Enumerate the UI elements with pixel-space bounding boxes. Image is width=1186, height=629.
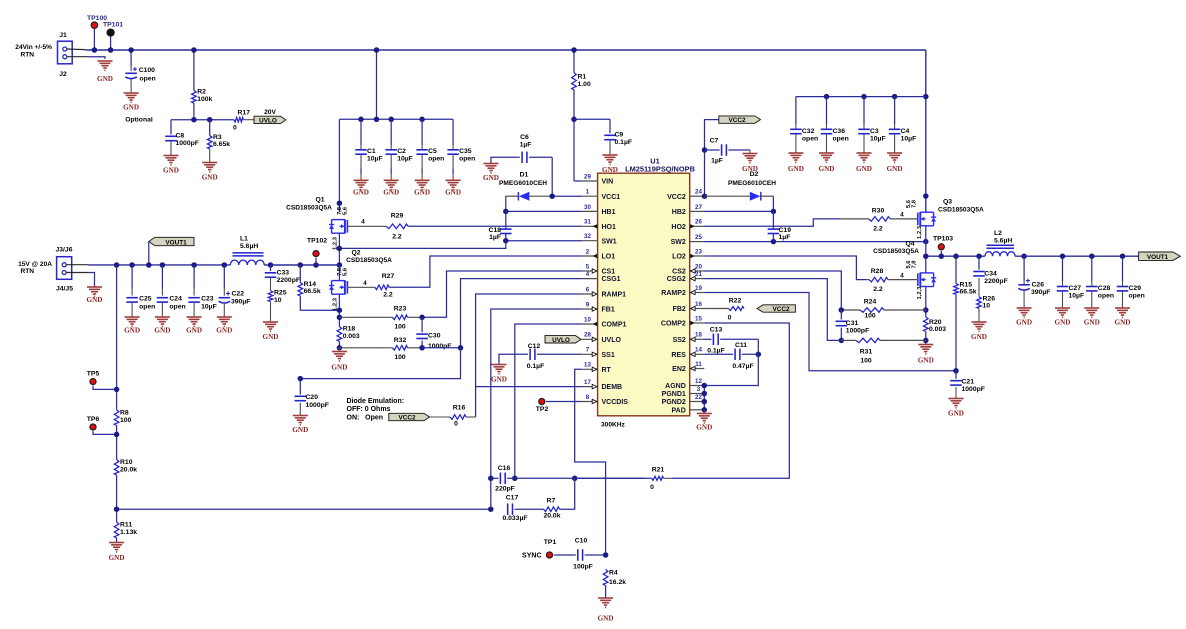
ground R18 [338, 348, 340, 352]
svg-text:390µF: 390µF [1031, 289, 1050, 296]
svg-text:OFF: 0 Ohms: OFF: 0 Ohms [347, 406, 391, 413]
svg-text:100pF: 100pF [573, 563, 593, 570]
wire HB2 row [704, 210, 773, 212]
svg-text:C35: C35 [459, 148, 472, 155]
wire SW1 row [506, 240, 582, 242]
pin RAMP2 (19) [690, 292, 705, 294]
net label UVLO at pin 28 [545, 336, 581, 343]
wire RT to R4 node [575, 369, 606, 555]
wire VIN pin [574, 180, 582, 182]
svg-text:VCC2: VCC2 [667, 194, 686, 201]
capacitor C19 1µF [772, 211, 774, 229]
resistor R17 0 [234, 117, 244, 122]
resistor R4 16.2k [603, 570, 608, 586]
svg-text:1.00: 1.00 [578, 81, 591, 88]
svg-text:C30: C30 [428, 333, 441, 340]
svg-text:0.47µF: 0.47µF [732, 363, 753, 370]
capacitor C34 2200pF [978, 256, 980, 270]
svg-text:GND: GND [331, 364, 347, 372]
svg-text:4: 4 [900, 212, 904, 219]
svg-text:RTN: RTN [20, 268, 34, 275]
svg-text:PAD: PAD [672, 407, 686, 414]
ground R26 [972, 321, 987, 323]
capacitor C16 220pF [491, 477, 499, 479]
wire J4 to ground [66, 272, 88, 274]
svg-text:UVLO: UVLO [602, 337, 622, 344]
wire LO1 to R27 [389, 256, 581, 287]
svg-text:2200pF: 2200pF [277, 277, 300, 284]
svg-text:6.65k: 6.65k [213, 141, 230, 148]
svg-text:5.6µH: 5.6µH [240, 243, 258, 250]
svg-text:14: 14 [695, 347, 702, 354]
wire feedback column [116, 265, 118, 410]
resistor R26 10 [977, 297, 982, 309]
wire CSG1 branch to C20 [300, 348, 460, 379]
svg-text:0.1µF: 0.1µF [707, 348, 725, 355]
wire LO2 to R28 [704, 256, 866, 280]
ground C29 [1115, 307, 1130, 309]
svg-text:VIN: VIN [602, 179, 614, 186]
svg-text:HO1: HO1 [602, 224, 617, 231]
svg-text:SS2: SS2 [673, 337, 686, 344]
svg-text:GND: GND [598, 615, 614, 623]
pin SS2 (18) [690, 338, 705, 340]
svg-text:10µF: 10µF [201, 304, 217, 311]
svg-text:DEMB: DEMB [602, 384, 623, 391]
svg-text:SS1: SS1 [602, 352, 615, 359]
svg-text:0.1µF: 0.1µF [527, 363, 545, 370]
wire SW2 row [704, 241, 926, 243]
svg-text:20V: 20V [264, 109, 276, 116]
svg-text:TP1: TP1 [544, 539, 557, 546]
svg-text:22: 22 [695, 394, 702, 401]
svg-text:C6: C6 [520, 134, 529, 141]
wire CSG1 [422, 279, 581, 348]
ground C7 [749, 150, 751, 154]
pin RT (13) [582, 368, 598, 370]
svg-text:R28: R28 [871, 268, 884, 275]
pin RES (14) [690, 353, 705, 355]
svg-text:R29: R29 [391, 213, 404, 220]
pin COMP2 (15) [690, 322, 705, 324]
svg-text:R3: R3 [213, 134, 222, 141]
svg-text:R18: R18 [343, 326, 356, 333]
wire CS2 [704, 271, 841, 310]
svg-text:0: 0 [728, 315, 732, 322]
svg-text:GND: GND [1115, 319, 1131, 327]
wire R11 node to C17 [117, 508, 491, 510]
svg-text:0.033µF: 0.033µF [502, 515, 527, 522]
svg-text:24Vin +/-5%: 24Vin +/-5% [15, 44, 52, 51]
svg-text:CSD18503Q5A: CSD18503Q5A [346, 257, 392, 264]
svg-text:1000pF: 1000pF [428, 343, 451, 350]
svg-text:2.2: 2.2 [392, 234, 402, 241]
svg-text:Optional: Optional [125, 117, 153, 124]
svg-text:R14: R14 [304, 281, 317, 288]
svg-text:20.0k: 20.0k [543, 512, 560, 519]
svg-text:GND: GND [1055, 319, 1071, 327]
svg-text:open: open [140, 76, 156, 83]
svg-text:4: 4 [900, 272, 904, 279]
svg-text:GND: GND [971, 333, 987, 341]
resistor R14 66.5k [299, 265, 301, 282]
svg-text:R20: R20 [929, 319, 942, 326]
ground R20 [918, 344, 933, 346]
resistor R25 10 [268, 291, 273, 302]
svg-text:19: 19 [695, 285, 702, 292]
ground C23 [187, 316, 202, 318]
svg-text:open: open [1129, 292, 1145, 299]
svg-text:C36: C36 [833, 128, 846, 135]
svg-text:Q2: Q2 [351, 249, 360, 256]
svg-text:4: 4 [363, 280, 367, 287]
capacitor C4 10µF [894, 97, 896, 124]
svg-text:Q3: Q3 [943, 199, 952, 206]
test point TP103 [938, 244, 944, 250]
svg-text:10: 10 [274, 297, 282, 304]
svg-text:C21: C21 [962, 379, 975, 386]
ground C24 [155, 316, 170, 318]
capacitor C35 open [452, 119, 454, 145]
wire VIN to cap bank [376, 50, 378, 119]
connector J1/J2 [58, 41, 73, 64]
wire 24Vin rail [85, 49, 926, 51]
wire RAMP2 to C21 [704, 293, 956, 371]
capacitor C29 open [1122, 256, 1124, 281]
svg-text:TP6: TP6 [87, 416, 100, 423]
capacitor C11 0.47µF [704, 353, 733, 355]
svg-text:16: 16 [695, 301, 702, 308]
svg-text:GND: GND [353, 189, 369, 197]
ground C36 [819, 152, 834, 154]
pin VCC1 (1) [582, 195, 598, 197]
capacitor C36 open [826, 97, 828, 124]
wire VCC1 pin [552, 195, 581, 197]
svg-text:0.1µF: 0.1µF [615, 139, 633, 146]
svg-text:26: 26 [695, 219, 702, 226]
capacitor C26 390µF [1023, 256, 1025, 280]
ground C32 [788, 152, 803, 154]
svg-text:GND: GND [163, 167, 179, 175]
svg-text:C32: C32 [802, 128, 815, 135]
pin HO2 (26) [690, 225, 705, 227]
svg-text:R2: R2 [197, 89, 206, 96]
svg-text:C23: C23 [201, 296, 214, 303]
wire VOUT1 rail right [1015, 255, 1173, 257]
svg-text:PMEG6010CEH: PMEG6010CEH [728, 180, 776, 187]
svg-text:CSD18503Q5A: CSD18503Q5A [938, 206, 984, 213]
svg-text:J4/J5: J4/J5 [56, 286, 73, 293]
capacitor C28 open [1091, 256, 1093, 281]
capacitor C5 open [421, 119, 423, 145]
svg-text:CS2: CS2 [672, 269, 686, 276]
svg-text:1µF: 1µF [711, 158, 723, 165]
capacitor C24 open [161, 265, 163, 289]
ground C5 [421, 174, 423, 180]
resistor R27 2.2 [347, 286, 374, 288]
pin VCCDIS (8) [582, 401, 598, 403]
svg-text:300KHz: 300KHz [601, 422, 626, 429]
ground C100 [124, 92, 139, 94]
pin CSG1 (4) [582, 278, 598, 280]
capacitor C8 1000pF [170, 120, 172, 135]
capacitor C10 100pF [554, 554, 576, 556]
pin LO2 (23) [690, 255, 705, 257]
resistor R1 1.00 [573, 50, 575, 73]
svg-text:open: open [833, 136, 849, 143]
capacitor C23 10µF [193, 265, 195, 289]
pin HB2 (27) [690, 210, 705, 212]
svg-text:GND: GND [856, 165, 872, 173]
svg-text:TP5: TP5 [87, 370, 100, 377]
resistor R2 100k [193, 50, 195, 91]
svg-text:12: 12 [695, 378, 702, 385]
pin VIN (29) [582, 180, 598, 182]
resistor R8 100 [114, 410, 119, 426]
svg-text:D1: D1 [520, 172, 529, 179]
pin HB1 (30) [582, 210, 598, 212]
svg-text:66.5k: 66.5k [304, 288, 321, 295]
svg-text:31: 31 [584, 219, 591, 226]
svg-text:100: 100 [860, 358, 872, 365]
svg-text:1µF: 1µF [489, 234, 501, 241]
capacitor C6 1µF [491, 157, 520, 163]
svg-text:C31: C31 [846, 320, 859, 327]
svg-text:C7: C7 [710, 138, 719, 145]
svg-text:HB1: HB1 [602, 209, 616, 216]
capacitor C17 0.033µF [507, 503, 509, 515]
svg-text:C8: C8 [176, 133, 185, 140]
ground R25 [263, 321, 278, 323]
svg-text:CSG2: CSG2 [667, 276, 686, 283]
svg-text:SW1: SW1 [602, 238, 617, 245]
svg-text:32: 32 [584, 233, 591, 240]
wire Q4 source chain [925, 287, 927, 317]
svg-text:COMP1: COMP1 [602, 322, 627, 329]
svg-text:FB1: FB1 [602, 307, 615, 314]
op-amp U1 LM25119PSQ/NOPB controller body [598, 173, 690, 416]
resistor R10 20.0k [114, 460, 119, 476]
wire AGND PGND PAD column [703, 386, 705, 411]
svg-text:R11: R11 [120, 522, 132, 529]
pin COMP1 (10) [582, 323, 598, 325]
ground C3 [857, 152, 872, 154]
pin VCC2 (24) [690, 195, 705, 197]
svg-text:SYNC: SYNC [522, 553, 541, 560]
wire CS1 [422, 271, 581, 317]
svg-text:C18: C18 [489, 227, 502, 234]
ground C22 [217, 316, 232, 318]
ground C9 [603, 154, 618, 156]
wire Q3 source to rail [925, 226, 927, 256]
svg-text:C1: C1 [367, 148, 376, 155]
svg-text:7,8: 7,8 [912, 260, 918, 269]
svg-text:100: 100 [864, 313, 876, 320]
svg-text:4: 4 [586, 271, 590, 278]
resistor R16 0 [450, 415, 466, 420]
test point TP2 [539, 398, 545, 404]
pin FB2 (16) [690, 308, 705, 310]
capacitor C3 10µF [863, 97, 865, 124]
svg-text:L1: L1 [240, 236, 248, 243]
svg-text:C16: C16 [498, 465, 511, 472]
svg-text:HO2: HO2 [671, 224, 686, 231]
resistor R3 6.65k [209, 120, 211, 136]
ground R11 [109, 542, 124, 544]
pin RAMP1 (6) [582, 293, 598, 295]
wire cap bank to Q1 drain [338, 119, 340, 212]
capacitor C100 open [130, 50, 132, 66]
svg-text:R31: R31 [860, 349, 873, 356]
svg-text:GND: GND [263, 333, 279, 341]
wire Q2 source chain [338, 295, 340, 327]
svg-text:7: 7 [586, 347, 590, 354]
capacitor C9 0.1µF [574, 118, 610, 120]
svg-text:1,2,3: 1,2,3 [917, 286, 923, 300]
svg-text:1000pF: 1000pF [306, 402, 329, 409]
svg-text:J3/J6: J3/J6 [55, 247, 72, 254]
svg-text:C12: C12 [528, 343, 541, 350]
pin FB1 (9) [582, 308, 598, 310]
resistor R24 100 [841, 309, 860, 311]
wire C16 to R21 [515, 477, 644, 479]
svg-text:J2: J2 [59, 71, 67, 78]
svg-text:GND: GND [87, 296, 103, 304]
svg-text:GND: GND [124, 327, 140, 335]
capacitor C33 2200pF [270, 265, 272, 271]
resistor R30 2.2 [869, 217, 891, 222]
svg-text:R16: R16 [453, 405, 466, 412]
svg-text:GND: GND [918, 357, 934, 365]
svg-text:R25: R25 [274, 290, 287, 297]
svg-text:C4: C4 [901, 128, 910, 135]
pin PGND1 (3) [690, 393, 705, 395]
svg-text:GND: GND [109, 554, 125, 562]
svg-text:CSD18503Q5A: CSD18503Q5A [286, 204, 332, 211]
capacitor C12 0.1µF [537, 353, 582, 355]
svg-text:open: open [169, 304, 185, 311]
pin AGND (12) [690, 385, 705, 387]
svg-text:VCC2: VCC2 [398, 415, 415, 422]
svg-text:ON: Open: ON: Open [347, 415, 384, 422]
resistor R20 0.003 [924, 317, 929, 332]
ground J2 [98, 60, 113, 62]
net label VOUT1 right [1139, 252, 1181, 260]
ground C4 [887, 152, 902, 154]
wire FB1 column [491, 309, 582, 509]
svg-text:R21: R21 [652, 466, 665, 473]
svg-text:5: 5 [586, 263, 590, 270]
svg-text:HB2: HB2 [672, 209, 686, 216]
svg-text:5.6µH: 5.6µH [994, 237, 1012, 244]
test point TP101 [107, 29, 114, 36]
ground C1 [360, 174, 362, 180]
wire HO2 to R30 [704, 219, 840, 226]
svg-text:GND: GND [202, 174, 218, 182]
wire Q1 source to rail [338, 234, 340, 266]
svg-text:GND: GND [483, 174, 499, 182]
wire DEMB row [476, 386, 582, 388]
pin CS2 (20) [690, 270, 705, 272]
svg-text:7,8: 7,8 [912, 199, 918, 208]
svg-text:R22: R22 [729, 297, 742, 304]
svg-text:100: 100 [120, 417, 132, 424]
svg-text:GND: GND [948, 410, 964, 418]
svg-text:2: 2 [586, 248, 590, 255]
svg-text:18: 18 [695, 332, 702, 339]
capacitor C13 0.1µF [704, 338, 711, 340]
svg-text:GND: GND [445, 189, 461, 197]
svg-text:25: 25 [695, 234, 702, 241]
svg-text:C11: C11 [735, 342, 747, 349]
net label VCC2 at FB2 [757, 305, 795, 312]
svg-text:C27: C27 [1069, 285, 1082, 292]
wire switch node 1 [264, 264, 339, 266]
svg-text:C33: C33 [277, 269, 290, 276]
svg-text:GND: GND [788, 165, 804, 173]
capacitor C18 1µF [505, 211, 507, 229]
svg-text:R26: R26 [983, 296, 996, 303]
pin SW1 (32) [582, 240, 598, 242]
svg-text:GND: GND [1084, 319, 1100, 327]
ground C28 [1084, 307, 1099, 309]
ground C21 [949, 398, 964, 400]
svg-text:VCC2: VCC2 [728, 117, 745, 124]
svg-text:R32: R32 [394, 337, 407, 344]
svg-text:TP102: TP102 [307, 238, 327, 245]
svg-text:15V @ 20A: 15V @ 20A [18, 261, 52, 268]
svg-text:GND: GND [383, 189, 399, 197]
svg-text:0.003: 0.003 [343, 333, 360, 340]
svg-text:1000pF: 1000pF [176, 140, 199, 147]
capacitor C21 1000pF [955, 371, 957, 379]
ground C8 [164, 155, 179, 157]
connector J3/J6 J4/J5 [57, 257, 72, 280]
capacitor C30 1000pF [421, 317, 423, 332]
svg-text:UVLO: UVLO [259, 118, 277, 125]
svg-text:R8: R8 [120, 410, 129, 417]
svg-text:10: 10 [584, 316, 591, 323]
svg-text:17: 17 [584, 379, 591, 386]
resistor R31 100 [841, 339, 856, 341]
svg-text:GND: GND [1016, 319, 1032, 327]
svg-text:LO2: LO2 [672, 254, 686, 261]
capacitor C27 10µF [1062, 256, 1064, 281]
svg-text:CS1: CS1 [602, 269, 616, 276]
svg-text:100: 100 [394, 324, 406, 331]
svg-text:GND: GND [887, 165, 903, 173]
svg-text:C5: C5 [428, 148, 437, 155]
svg-text:28: 28 [584, 332, 591, 339]
svg-text:C2: C2 [397, 148, 406, 155]
svg-text:C10: C10 [575, 538, 588, 545]
svg-text:0: 0 [233, 125, 237, 132]
pin CSG2 (21) [690, 278, 705, 280]
svg-text:C34: C34 [984, 271, 997, 278]
svg-text:10µF: 10µF [870, 136, 886, 143]
svg-text:TP101: TP101 [103, 22, 123, 29]
svg-text:open: open [1098, 292, 1114, 299]
svg-text:20: 20 [695, 263, 702, 270]
svg-text:3: 3 [697, 386, 701, 393]
svg-text:TP2: TP2 [536, 406, 549, 413]
pin PGND2 (22) [690, 401, 705, 403]
capacitor C1 10µF [360, 119, 362, 145]
svg-text:GND: GND [414, 189, 430, 197]
svg-text:24: 24 [695, 189, 702, 196]
svg-text:1µF: 1µF [520, 142, 532, 149]
pin CS1 (5) [582, 270, 598, 272]
